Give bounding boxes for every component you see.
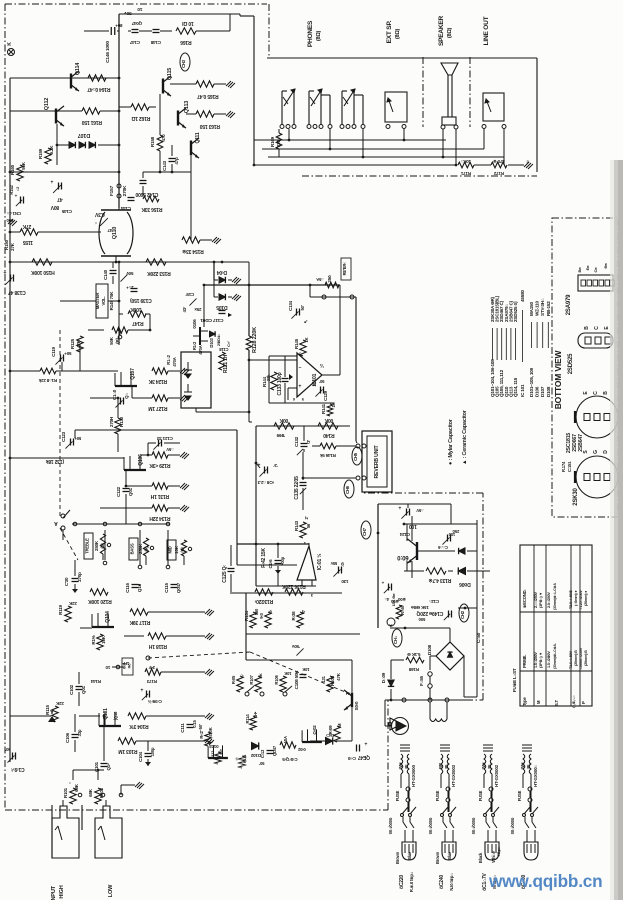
wire: output section bottom dash-dot [302,175,537,177]
svg-text:E: E [604,326,610,330]
capacitor C124 100/25V [406,509,408,516]
svg-text:Q‹02: Q‹02 [312,725,317,735]
svg-text:0.15: 0.15 [192,719,197,727]
wire: bottom chassis dash-dot border [5,809,388,811]
svg-text:D107: D107 [78,132,90,138]
svg-text:BR: BR [438,763,443,769]
svg-text:+: + [381,580,384,585]
resistor R140 100K [318,423,338,429]
diode D105 [219,294,225,300]
svg-text:C149ө 220Q: C149ө 220Q [416,610,443,616]
svg-text:R108: R108 [330,675,335,686]
svg-text:CH7: CH7 [362,527,367,536]
svg-text:R163 150: R163 150 [200,123,221,129]
svg-text:C135 22⁄35: C135 22⁄35 [294,476,300,500]
svg-text:(20mm) B: (20mm) B [584,650,588,666]
label 50V 25 cap [120,274,127,281]
svg-text:1K: 1K [304,337,309,342]
resistor R171 10Kohm [458,162,474,168]
svg-text:(3P※⌂) ▼: (3P※⌂) ▼ [538,652,543,668]
svg-text:Q,※,⌂.⌂: Q,※,⌂.⌂ [571,696,576,709]
svg-text:15K Өө: 15K Өө [391,593,396,607]
wire: x230 vertical solo feed [245,593,247,660]
svg-text:43⁄: 43⁄ [182,306,187,312]
wire: input coupling net [10,715,51,717]
svg-text:Q107: Q107 [130,368,136,380]
svg-text:R120 100K: R120 100K [88,598,112,604]
svg-text:C122: C122 [116,486,121,497]
capacitor C108 10/50V [300,674,307,676]
capacitor C147 0.047 [132,29,139,31]
capacitor C144 [128,197,135,199]
transistor Q105 with label [199,327,201,345]
oval CH2 [459,604,469,622]
svg-text:C‹09›½: C‹09›½ [148,699,162,705]
potentiometer MID 10K(B) [167,540,176,560]
svg-text:2.⌂⌂/250V: 2.⌂⌂/250V [534,591,538,608]
svg-text:50ӧ: 50ӧ [418,617,425,622]
svg-text:Q104: Q104 [105,611,111,623]
svg-text:Eө: Eө [585,265,590,270]
svg-text:2SD525: 2SD525 [568,353,574,374]
svg-text:S.T: S.T [554,699,559,706]
wire: y592 resistor row rail [230,592,342,594]
resistor R127 1M [152,395,168,401]
resistor R162 1ohm [131,104,149,110]
svg-text:BL: BL [404,763,409,769]
svg-text:QD47: QD47 [272,745,277,756]
svg-text:Q047: Q047 [176,582,181,593]
svg-text:Q113: Q113 [184,101,190,113]
svg-text:R143: R143 [294,520,299,531]
capacitor C136 100p [275,560,282,562]
svg-text:2′: 2′ [304,516,309,519]
box REVERB label [341,258,351,280]
wire: reverb connections [356,444,360,448]
box shield around Q105 stage [181,352,211,408]
svg-text:2⌂+: 2⌂+ [126,285,134,290]
svg-text:C117 CD01: C117 CD01 [200,317,224,323]
svg-text:C145: C145 [61,209,72,214]
label 6.3V cap [100,218,108,226]
svg-text:C⌂⌂6: C⌂⌂6 [437,545,447,550]
resistor 25K reverb send [325,282,339,288]
capacitor C145 47/80V [58,183,60,190]
label RV box small [122,658,133,675]
resistor R110 470K [280,742,296,748]
capacitor C115 0.047 [171,584,178,586]
svg-text:1H•: 1H• [122,661,129,666]
wire: rail y78 [10,77,119,79]
svg-text:270K: 270K [122,185,128,196]
svg-text:R.174: R.174 [561,461,566,472]
svg-text:1.5⌂/2※0V: 1.5⌂/2※0V [546,651,551,668]
svg-text:−50′: −50′ [198,724,203,732]
svg-text:22K: 22K [68,601,77,606]
svg-text:EXT SP.: EXT SP. [386,20,393,43]
wire: speaker feed from amp [253,16,255,165]
wire: Q109 collector [411,520,413,541]
resistor R115 22K [52,706,58,722]
wire: shield box bottom rail y412 [195,408,197,412]
resistor R123 row mid [145,669,161,675]
svg-text:D108: D108 [546,386,551,397]
svg-text:D103: D103 [209,338,214,348]
resistor R108 47K [327,676,333,692]
svg-text:(8Ω): (8Ω) [395,28,401,39]
svg-text:50v: 50v [330,561,337,566]
svg-text:+: + [3,269,6,275]
svg-text:(30mm)※L.C※A.: (30mm)※L.C※A. [552,643,557,669]
svg-text:C129: C129 [323,390,328,401]
svg-text:27K: 27K [22,223,31,229]
svg-text:RB-152: RB-152 [546,301,551,316]
svg-text:Blue: Blue [447,851,452,860]
wire: rail y262 [10,261,180,263]
transistor solo switch S010 [351,693,353,708]
wire: +V vertical rail [118,14,120,208]
resistor R105 10K [237,676,243,692]
wire: input jack to gate [72,770,74,780]
capacitor C126 100/25V [447,535,449,542]
svg-text:10: 10 [105,665,110,670]
svg-text:+: + [398,504,401,510]
capacitor C125 0.1 [228,568,235,570]
svg-text:FUSE: FUSE [395,790,400,801]
diode D101 [326,737,333,744]
svg-text:Q1■: Q1■ [137,583,142,592]
capacitor C122 0.01 [123,488,130,490]
potentiometer BASS 250K(A) [129,538,138,560]
wire: mid rails y422-427 [256,425,350,427]
svg-text:INPUT: INPUT [51,885,57,900]
svg-text:E: E [583,391,589,395]
resistor R163 150 [196,111,214,117]
capacitor C133 100p [282,378,289,380]
svg-text:QE47: QE47 [358,754,370,760]
svg-text:HT-GX0ӧ0⌂: HT-GX0ӧ0⌂ [533,765,538,787]
wire: opamp1 output riser [322,374,340,376]
svg-text:R130: R130 [119,416,124,427]
svg-text:FU※E L⌂ST: FU※E L⌂ST [511,668,517,692]
resistor R109 1M [334,726,340,742]
svg-text:R146 5k: R146 5k [320,453,336,458]
wire: preamp row y330 [88,329,104,331]
potentiometer 50K(B) [112,327,128,333]
svg-text:WH: WH [481,763,486,770]
transistor Q106 fet [124,469,146,471]
resistor R113 470 [215,752,221,764]
diode D106 zener [458,567,465,574]
svg-text:R147: R147 [132,320,144,326]
resistor R116 10K [97,634,103,650]
svg-text:4⌂: 4⌂ [384,597,389,602]
wire: Q111 bias net [190,156,192,240]
resistor R160 56K [17,165,23,181]
wire: phones jack bus [288,129,290,140]
wire: right lower chassis dash-dot border [387,700,389,810]
svg-text:45580: 45580 [520,290,525,302]
svg-text:68K: 68K [74,783,79,792]
svg-text:FUSE: FUSE [478,790,483,801]
transistor package 2SK30 bottom view [576,456,618,498]
svg-text:PHONES: PHONES [307,20,314,47]
wire: C126 stubs [418,550,455,552]
svg-text:R154 33※: R154 33※ [182,248,204,255]
svg-text:470 ※: 470 ※ [493,159,505,165]
svg-text:10 Ωl: 10 Ωl [182,20,194,26]
resistor R147 100K [128,311,146,317]
svg-text:Q01: Q01 [81,685,86,694]
svg-text:※0ӧ: ※0ӧ [397,597,405,602]
svg-text:D108: D108 [427,644,432,655]
resistor R104 3.9K [128,713,146,719]
svg-text:C143: C143 [162,160,167,171]
wire: reverb return y478 [303,477,356,479]
label A mark [48,716,56,722]
wire: preamp vertical x237 bus [236,430,238,565]
svg-text:470A: 470A [198,345,203,354]
svg-text:MA150: MA150 [529,302,534,316]
svg-text:BL: BL [487,763,492,769]
resistor R133 4.7 [426,568,446,574]
resistor R124 3K [152,368,168,374]
svg-text:R1‹2: R1‹2 [192,341,197,350]
svg-text:R141: R141 [321,403,326,414]
svg-text:−: − [298,364,301,370]
wire: Q104 nets [80,627,92,629]
svg-text:C12⌂: C12⌂ [428,599,439,604]
svg-text:▲ : Ceramic Capacitor: ▲ : Ceramic Capacitor [462,409,468,465]
wire: reverb send vertical x354 [355,297,357,441]
svg-text:+: + [50,178,53,184]
svg-text:0‹02: 0‹02 [297,747,305,752]
svg-text:100: 100 [409,523,417,529]
wire: rail y111 [10,110,82,112]
wire: power supply dash-dot borders [466,699,483,701]
wire: preamp left rail [9,78,11,762]
svg-text:Bө: Bө [577,267,582,273]
potentiometer elements beside boxes [100,534,105,554]
jack: spare phones jack J3 [341,91,343,124]
capacitor C121 33/25V [158,440,160,447]
svg-text:C132: C132 [294,436,299,447]
resistor R117 39K [130,609,148,615]
svg-text:‹0′: ‹0′ [301,610,306,614]
resistor R168 5.1K [406,657,424,663]
resistor R136 220K [285,589,303,595]
label 50V diagonal [296,648,303,655]
svg-text:C147: C147 [129,40,140,45]
wire: mid rail y297 with reverb send [204,284,340,286]
svg-text:10K: 10K [302,667,309,672]
switch footswitch A [61,514,65,518]
svg-text:R164 0⌂47: R164 0⌂47 [87,86,110,92]
svg-text:Q111: Q111 [195,132,201,143]
svg-text:2SD525 ӧ): 2SD525 ӧ) [513,301,518,322]
svg-text:60:0: 60:0 [397,554,409,560]
resistor R137 220K [255,589,273,595]
svg-text:Brown: Brown [435,851,440,864]
resistor R136 22K row [152,505,168,511]
resistor R167 [396,605,402,619]
transistor Q110 dual [99,212,105,254]
svg-text:Өө: Өө [603,263,608,269]
svg-text:C102: C102 [69,684,74,695]
svg-text:C134: C134 [288,300,293,311]
svg-text:CH⌂: CH⌂ [393,635,398,644]
capacitor C132 [301,443,308,445]
svg-text:BL: BL [526,763,531,769]
diode D107 triple [69,142,75,148]
wire: tone pot wipers [104,530,106,560]
transistor package 2SC1815 2SD667 2SB647 bottom view [576,396,618,438]
svg-text:2.0⌂/250V: 2.0⌂/250V [547,592,551,608]
svg-text:‹C⁄8 ⌂2.3: ‹C⁄8 ⌂2.3 [257,480,274,485]
resistor R138 10K [297,612,303,628]
svg-text:00K: 00K [279,417,288,423]
svg-text:Blue: Blue [407,851,412,860]
transistor Q113 [177,111,179,126]
wire: master vol wires [108,300,119,302]
resistor R102 68K [95,788,101,804]
svg-text:(132 18k: (132 18k [46,458,65,464]
resistor R111 47K [239,756,245,768]
svg-text:R‹05: R‹05 [231,675,236,684]
svg-text:+: + [140,686,143,692]
wire: speaker terminal drops [455,129,457,165]
svg-text:C: C [593,391,599,395]
svg-text:Q114: Q114 [75,62,81,75]
svg-text:R172: R172 [493,171,504,176]
resistor R112 470K [205,732,211,746]
svg-text:½: ½ [320,362,324,369]
capacitor C117 0.01 [219,310,226,312]
wire: top cap row connections [128,30,131,32]
speaker SP1 [441,63,458,75]
wire: PS rail y558 [404,570,424,572]
svg-text:3: 3 [310,593,313,598]
svg-text:ӧC220: ӧC220 [399,875,405,889]
svg-text:R1%: R1% [91,635,96,644]
svg-text:R101: R101 [63,787,68,798]
svg-text:N.Iӧ t※p⌂: N.Iӧ t※p⌂ [449,873,454,891]
svg-text:FUSE: FUSE [517,790,522,801]
resistor R114 1M [250,716,256,730]
svg-text:50v: 50v [124,10,132,16]
svg-text:HT-GX0ӧ03: HT-GX0ӧ03 [451,764,456,786]
svg-text:R150: R150 [4,239,9,250]
capacitor C135 22/35 [300,482,307,484]
svg-text:10K: 10K [284,671,291,676]
capacitor C140 [110,270,117,272]
transistor Q102 [302,741,322,743]
svg-text:C‹0⁄ Q‹5: C‹0⁄ Q‹5 [282,757,298,762]
transistor Q109 regulator [416,542,418,560]
svg-text:56: 56 [306,523,311,528]
svg-text:R119: R119 [58,604,63,614]
svg-text:R140: R140 [323,432,335,438]
svg-text:R156 33K: R156 33K [141,206,163,212]
capacitor C128 22uF [264,467,266,474]
svg-text:D101~105, 109: D101~105, 109 [529,367,534,397]
svg-text:F157: F157 [109,185,115,196]
resistor R154 33K [182,237,200,243]
resistor R121 1M [219,352,225,370]
svg-text:00K: 00K [324,417,333,423]
wire: opamp1 feedback box [269,355,297,357]
svg-text:D105: D105 [216,304,228,310]
svg-text:D106: D106 [535,386,540,397]
svg-text:10K⌂: 10K⌂ [460,159,471,164]
resistor R139 100K [274,423,294,429]
svg-text:C139 150): C139 150) [130,297,152,303]
diode D103 [210,331,216,337]
svg-text:5.1K Ө: 5.1K Ө [407,652,421,657]
svg-text:R129 <3K: R129 <3K [149,462,171,468]
resistor R155 27K [20,229,38,235]
svg-text:Q114, 115: Q114, 115 [513,377,518,397]
resistor R118 1M [148,633,166,639]
svg-text:‹0‹: ‹0‹ [268,609,273,614]
svg-text:25ӧ: 25ӧ [327,275,332,283]
svg-text:C1‹9 ⁄‹: C1‹9 ⁄‹ [11,766,25,772]
svg-text:R162 1Ω: R162 1Ω [131,115,150,121]
svg-text:R144: R144 [90,679,101,684]
svg-text:B: B [603,391,609,395]
capacitor C105 electrolytic [146,691,148,698]
wire: bridge connections [430,655,436,657]
svg-text:270H: 270H [109,417,114,427]
svg-text:REVERB UNIT: REVERB UNIT [374,444,380,478]
resistor R145 1K [300,340,306,356]
svg-text:Q1•: Q1• [106,763,111,771]
svg-text:50′: 50′ [259,761,264,766]
svg-text:(8Ω): (8Ω) [316,30,322,41]
svg-text:50′: 50′ [319,379,324,384]
resistor R128 220K [248,285,250,336]
svg-text:D‹04: D‹04 [217,269,227,275]
svg-text:C115: C115 [164,582,169,592]
svg-text:68K: 68K [88,788,93,797]
wire: PS bottom rail y700 [385,699,466,701]
resistor R101 68K [70,788,76,804]
wire: footswitch drop [384,700,386,726]
svg-text:R158: R158 [150,136,155,147]
resistor R129 3.3K [152,452,168,458]
svg-text:(Q10: (Q10 [113,711,118,720]
diode bridge D108 [436,642,464,670]
svg-text:CH6: CH6 [345,485,350,494]
svg-text:‹′‹: ‹′‹ [234,757,239,761]
svg-text:R127 1M: R127 1M [149,405,168,411]
capacitor C113 0.047 50V [267,750,274,752]
svg-text:4⁄0A: 4⁄0A [283,736,288,744]
svg-text:(30mm)※⌂L.C※A: (30mm)※⌂L.C※A [552,583,557,610]
svg-text:LINE OUT: LINE OUT [483,16,490,45]
transistor Q111 driver [190,141,192,156]
svg-text:C133 100p: C133 100p [277,372,283,395]
svg-text:10K: 10K [101,635,106,644]
svg-text:T500m⌂/250V: T500m⌂/250V [579,647,583,670]
wire: opamp1 inverting input feed [249,359,297,361]
svg-text:+: + [364,740,367,746]
svg-text:R114: R114 [245,714,250,724]
resistor R169 330 [278,129,280,133]
resistor R125 47K [77,336,83,352]
fuse F155 [428,672,432,676]
svg-text:FUSE: FUSE [435,790,440,801]
